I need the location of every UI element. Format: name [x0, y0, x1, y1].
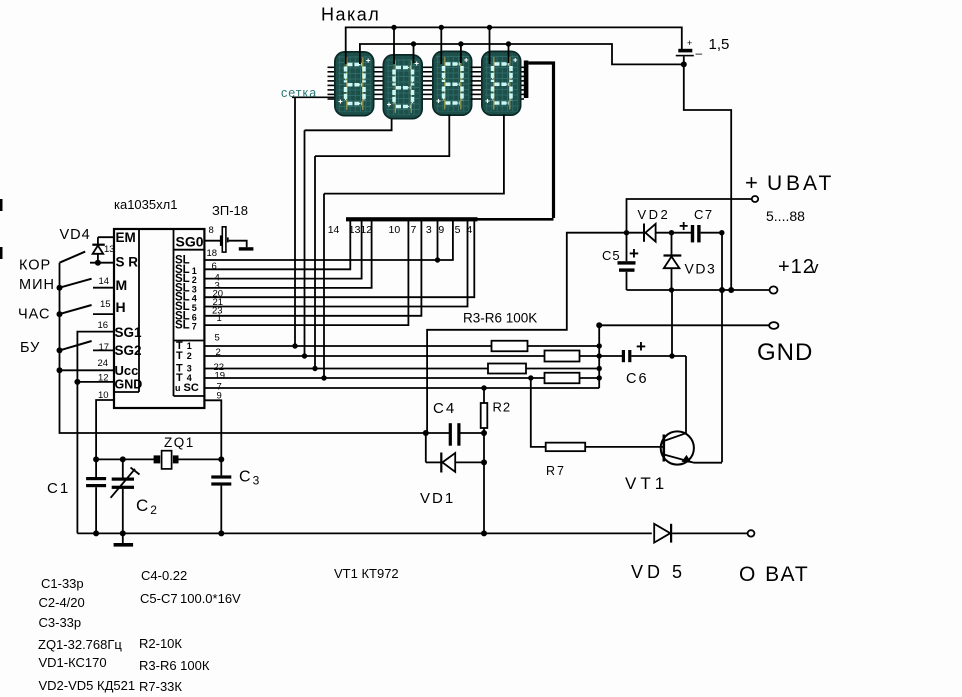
svg-text:БУ: БУ — [20, 340, 40, 356]
svg-text:19: 19 — [215, 371, 226, 382]
svg-text:BAT: BAT — [786, 172, 834, 195]
svg-text:VT1: VT1 — [625, 474, 668, 493]
svg-text:VT1 КТ972: VT1 КТ972 — [334, 566, 399, 581]
svg-text:–: – — [696, 46, 703, 60]
svg-text:C4-0.22: C4-0.22 — [141, 568, 187, 583]
svg-text:5....88: 5....88 — [766, 208, 805, 224]
svg-text:+: + — [629, 244, 639, 263]
svg-text:+: + — [636, 337, 646, 356]
svg-text:1,5: 1,5 — [709, 36, 730, 53]
svg-text:13: 13 — [349, 224, 361, 236]
svg-text:+: + — [687, 38, 692, 48]
svg-text:C3-33p: C3-33p — [39, 615, 82, 630]
svg-text:VD1-КС170: VD1-КС170 — [39, 655, 107, 670]
svg-text:5: 5 — [672, 562, 682, 582]
svg-text:9: 9 — [438, 224, 444, 236]
svg-text:H: H — [116, 299, 126, 315]
svg-text:ЗП-18: ЗП-18 — [212, 203, 248, 218]
svg-text:1: 1 — [217, 313, 222, 324]
svg-text:R2-10К: R2-10К — [139, 636, 182, 651]
svg-text:Накал: Накал — [321, 5, 380, 25]
svg-text:МИН: МИН — [19, 277, 55, 293]
svg-text:C1-33p: C1-33p — [41, 576, 84, 591]
svg-text:VD2: VD2 — [638, 207, 671, 222]
svg-text:5: 5 — [455, 224, 461, 236]
svg-text:VD1: VD1 — [420, 490, 455, 507]
svg-text:EM: EM — [116, 230, 136, 245]
svg-text:C5: C5 — [602, 248, 621, 263]
svg-text:13: 13 — [104, 244, 115, 255]
svg-text:18: 18 — [207, 248, 218, 259]
svg-text:C6: C6 — [626, 371, 649, 387]
svg-text:сетка: сетка — [281, 86, 317, 100]
svg-text:КД521: КД521 — [97, 678, 135, 693]
svg-text:7: 7 — [411, 224, 417, 236]
svg-text:VD3: VD3 — [685, 261, 717, 277]
svg-text:M: M — [116, 277, 128, 293]
svg-text:C2-4/20: C2-4/20 — [39, 595, 85, 610]
svg-text:VD4: VD4 — [60, 227, 91, 243]
svg-text:SG1: SG1 — [115, 325, 143, 340]
svg-text:ZQ1-32.768Гц: ZQ1-32.768Гц — [38, 637, 122, 652]
svg-text:SL7: SL7 — [175, 320, 197, 332]
svg-text:+: + — [745, 170, 758, 195]
svg-text:C1: C1 — [47, 480, 70, 497]
svg-text:10: 10 — [389, 224, 401, 236]
svg-text:v: v — [810, 258, 820, 277]
svg-text:SG2: SG2 — [115, 343, 142, 358]
svg-text:C4: C4 — [433, 400, 456, 417]
svg-text:ка1035хл1: ка1035хл1 — [114, 197, 177, 212]
svg-text:+: + — [679, 218, 688, 235]
svg-text:R3-R6 100К: R3-R6 100К — [139, 658, 210, 673]
svg-text:C5-C7: C5-C7 — [140, 591, 178, 606]
svg-text:R7: R7 — [546, 464, 566, 478]
svg-text:C7: C7 — [694, 207, 714, 222]
svg-text:8: 8 — [209, 225, 214, 236]
svg-text:R2: R2 — [493, 400, 512, 415]
svg-text:VD: VD — [631, 562, 664, 582]
svg-text:VD2-VD5: VD2-VD5 — [39, 678, 94, 693]
svg-text:14: 14 — [99, 276, 110, 287]
svg-text:100.0*16V: 100.0*16V — [180, 591, 241, 606]
svg-text:uSC: uSC — [175, 382, 199, 394]
svg-text:14: 14 — [328, 224, 340, 236]
svg-text:ЧАС: ЧАС — [18, 307, 51, 323]
svg-text:КОР: КОР — [19, 258, 51, 274]
svg-text:16: 16 — [98, 320, 109, 331]
svg-text:S R: S R — [116, 255, 139, 270]
svg-text:4: 4 — [466, 224, 472, 236]
svg-text:6: 6 — [212, 261, 217, 272]
svg-text:R3-R6 100K: R3-R6 100K — [463, 311, 537, 326]
svg-text:GND: GND — [757, 339, 813, 366]
svg-text:ZQ1: ZQ1 — [164, 435, 195, 450]
svg-text:17: 17 — [99, 342, 110, 353]
svg-text:12: 12 — [360, 224, 372, 236]
svg-text:3: 3 — [426, 224, 432, 236]
svg-text:Uсс: Uсс — [115, 363, 139, 378]
svg-text:24: 24 — [98, 358, 109, 369]
svg-text:О ВАТ: О ВАТ — [739, 563, 810, 586]
svg-text:15: 15 — [100, 299, 111, 310]
svg-text:GND: GND — [115, 378, 143, 392]
svg-text:R7-33К: R7-33К — [139, 679, 182, 694]
svg-text:5: 5 — [215, 333, 220, 344]
svg-text:SG0: SG0 — [176, 234, 204, 250]
svg-text:U: U — [767, 172, 785, 195]
